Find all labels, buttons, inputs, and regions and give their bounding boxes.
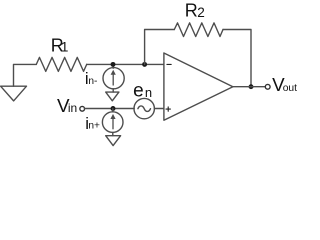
wire (Vin terminal to e_n source) <box>85 108 135 110</box>
svg-text:n-: n- <box>88 76 97 87</box>
resistor R1 <box>36 57 86 71</box>
node (output junction) <box>249 84 254 89</box>
op-amp U1 plus sign <box>166 107 170 111</box>
node (inverting input / i_n- tap) <box>111 62 116 67</box>
current source i_n+ arrow <box>110 114 115 129</box>
wire (feedback tap up to R2) <box>145 30 175 65</box>
svg-text:e: e <box>133 81 144 102</box>
wire (i_n- tap down to current source) <box>112 64 114 68</box>
terminal Vin (open circle) <box>80 106 85 111</box>
svg-text:n: n <box>145 85 152 100</box>
ground (below i_n-) <box>106 92 119 101</box>
svg-text:in: in <box>68 101 77 115</box>
terminal Vout (open circle) <box>265 84 270 89</box>
svg-text:out: out <box>283 83 297 94</box>
resistor R2 <box>174 23 223 37</box>
op-amp U1 minus sign <box>167 63 171 65</box>
op-amp U1 <box>164 53 233 120</box>
current source i_n- <box>103 68 124 89</box>
wire (e_n to op-amp non-inverting input) <box>154 108 163 110</box>
wire (R2 to output node) <box>223 30 251 87</box>
svg-text:2: 2 <box>197 5 205 20</box>
current source i_n- arrow <box>111 70 116 86</box>
svg-text:n+: n+ <box>88 121 100 132</box>
svg-text:R: R <box>185 0 198 20</box>
wire (i_n- source to ground) <box>112 89 114 92</box>
wire (i_n+ source to ground) <box>112 132 114 135</box>
voltage source e_n sine symbol <box>138 106 151 112</box>
wire (i_n+ tap down to current source) <box>112 109 114 112</box>
current source i_n+ <box>102 112 123 133</box>
wire (left ground up and to R1) <box>14 64 37 86</box>
node (feedback tap) <box>142 62 147 67</box>
node (i_n+ tap) <box>111 106 116 111</box>
ground (left input ground) <box>1 86 27 101</box>
svg-text:1: 1 <box>61 39 69 54</box>
voltage source e_n <box>134 98 154 118</box>
wire (R1 to op-amp inverting input) <box>87 63 164 65</box>
ground (below i_n+) <box>106 136 121 146</box>
wire (op-amp output to Vout terminal) <box>233 86 265 88</box>
